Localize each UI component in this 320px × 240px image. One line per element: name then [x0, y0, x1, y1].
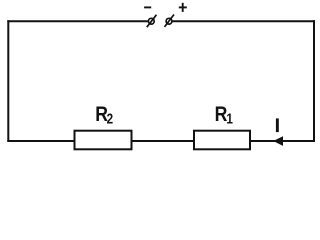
wire: bottom of loop	[7, 140, 315, 142]
wire: top, right segment from positive terminal	[172, 20, 315, 22]
label: minus sign of negative terminal	[144, 6, 151, 8]
battery negative terminal (open circle with slash)	[147, 15, 157, 27]
battery positive terminal (open circle with slash)	[165, 15, 175, 27]
wire: left vertical side of loop	[7, 20, 9, 142]
svg-text:R: R	[215, 102, 228, 126]
wire: top, left segment to negative terminal	[7, 20, 148, 22]
label: plus sign of positive terminal	[179, 3, 187, 12]
current direction arrowhead on bottom wire	[273, 136, 283, 146]
resistor R2 (box)	[75, 131, 132, 150]
svg-text:2: 2	[107, 110, 114, 127]
label I (current)	[276, 118, 279, 132]
wire: right vertical side of loop	[313, 20, 315, 142]
resistor R1 (box)	[194, 131, 250, 150]
svg-text:1: 1	[226, 110, 233, 127]
